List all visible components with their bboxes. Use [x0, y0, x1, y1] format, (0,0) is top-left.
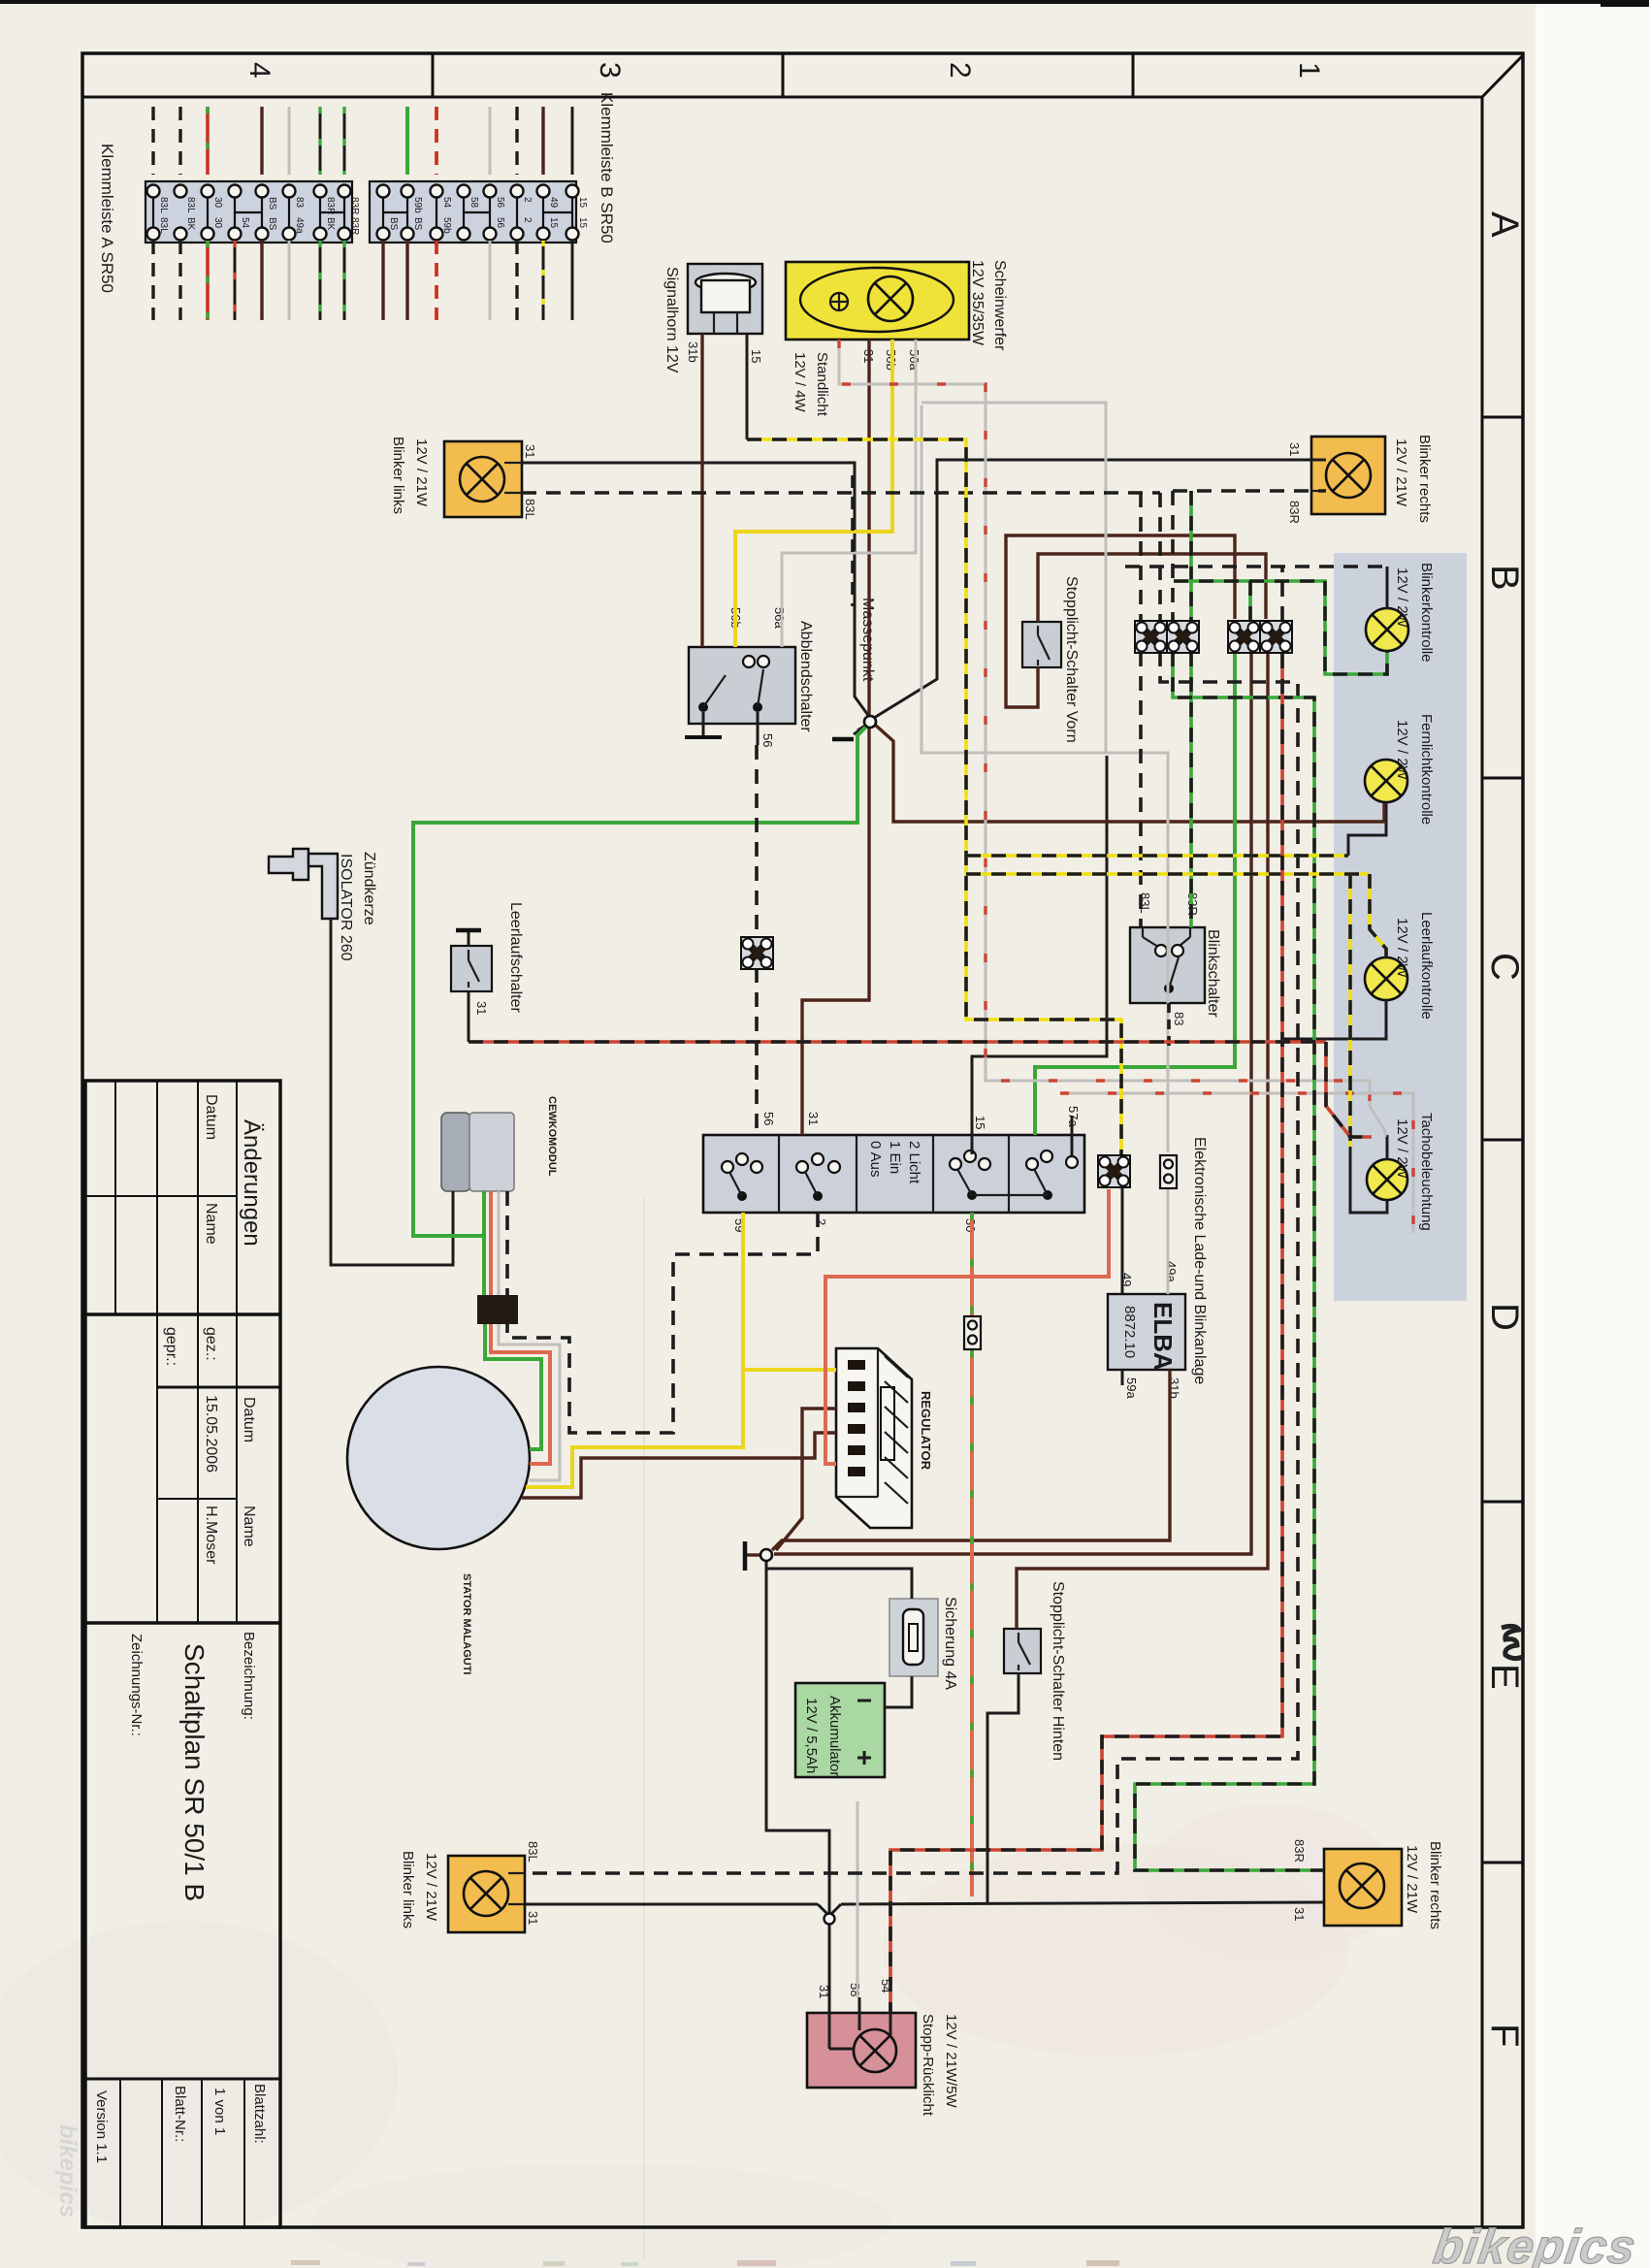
- wire stub strip A top BS: [260, 107, 263, 175]
- svg-text:59a: 59a: [1124, 1377, 1139, 1399]
- wire 30 switch to fuse area: [970, 1213, 974, 1315]
- svg-text:Stopp-Rücklicht: Stopp-Rücklicht: [920, 2014, 936, 2117]
- svg-text:83L: 83L: [158, 217, 169, 234]
- switch Blinkschalter: [1130, 927, 1205, 1003]
- wire 56 dashed Abblendschalter to switch: [755, 745, 759, 937]
- wire Stopplicht vorn to connector 4: [1038, 554, 1266, 622]
- svg-text:Tachobeleuchtung: Tachobeleuchtung: [1418, 1113, 1435, 1231]
- svg-text:Abblendschalter: Abblendschalter: [797, 621, 814, 732]
- Leerlaufschalter top bar: [468, 931, 470, 946]
- svg-text:CEWKOMODUL: CEWKOMODUL: [546, 1096, 558, 1177]
- Abblendschalter ground: [702, 712, 705, 735]
- wire 83R verticals to connector2: [1171, 491, 1175, 621]
- svg-text:Datum: Datum: [241, 1397, 257, 1442]
- turn signal Blinker rechts front 12V/21W: [1311, 437, 1385, 514]
- svg-text:E: E: [1483, 1664, 1526, 1690]
- svg-text:54: 54: [441, 197, 452, 209]
- svg-text:Blinker rechts: Blinker rechts: [1416, 435, 1433, 523]
- svg-text:Schaltplan SR 50/1 B: Schaltplan SR 50/1 B: [179, 1643, 210, 1901]
- svg-text:gez.:: gez.:: [203, 1327, 219, 1361]
- wire stub strip B top 54: [435, 107, 438, 175]
- svg-text:30: 30: [212, 197, 223, 209]
- svg-text:Name: Name: [241, 1506, 257, 1547]
- svg-text:Klemmleiste B SR50: Klemmleiste B SR50: [598, 92, 616, 243]
- wire stub strip A top 83L: [151, 107, 154, 175]
- svg-text:12V / 2W: 12V / 2W: [1394, 567, 1410, 629]
- connector block ELBA 49: [1098, 1155, 1130, 1187]
- wire stub strip A top 83R: [319, 107, 322, 175]
- svg-text:REGULATOR: REGULATOR: [919, 1391, 933, 1471]
- wire white distribution loop: [921, 403, 1106, 753]
- svg-text:57a: 57a: [1066, 1106, 1081, 1127]
- svg-text:31: 31: [523, 444, 537, 458]
- wire 83R front dashed to Blinker rechts: [1173, 489, 1326, 493]
- svg-text:83R: 83R: [349, 217, 360, 235]
- wire Massepunkt to Fernlichtkontrolle (ground return): [875, 725, 1384, 822]
- terminal strip Klemmleiste B SR50: [370, 181, 576, 243]
- svg-text:F: F: [1483, 2024, 1526, 2047]
- svg-text:15: 15: [548, 217, 559, 229]
- zone divider right y=1548: [1482, 1501, 1523, 1504]
- svg-text:Standlicht: Standlicht: [814, 352, 830, 417]
- svg-text:Bezeichnung:: Bezeichnung:: [241, 1632, 257, 1720]
- wire ELBA 59a stub: [1121, 1370, 1124, 1385]
- switch Abblendschalter: [689, 647, 795, 724]
- switch Stopplicht-Schalter Hinten: [1004, 1629, 1041, 1673]
- wire white 49a to ELBA: [1167, 1189, 1170, 1294]
- wire stub strip B bottom 15: [542, 241, 545, 320]
- svg-text:49: 49: [548, 197, 559, 209]
- horn Signalhorn 12V: [688, 264, 762, 334]
- indicator lamp Fernlichtkontrolle 12V/2W: [1365, 760, 1407, 802]
- wire ELBA 31b to ground junction: [772, 1370, 1170, 1550]
- tail light Stopp-Rücklicht 12V/21W/5W: [807, 2013, 916, 2088]
- stator STATOR MALAGUTI: [347, 1367, 530, 1549]
- wire regulator brown 1: [776, 1409, 836, 1550]
- wire stub strip A bottom 54: [234, 241, 237, 320]
- ink mark near zone E: [1502, 1626, 1523, 1658]
- svg-text:49a: 49a: [1164, 1261, 1179, 1282]
- svg-text:8872.10: 8872.10: [1121, 1306, 1138, 1358]
- frame inner top line: [82, 96, 1482, 99]
- wire 31 front left (Blinker links to Massepunkt): [522, 463, 870, 718]
- wire regulator brown 2 to stator: [522, 1433, 836, 1498]
- wire spark plug to CEWKOMODUL: [331, 919, 453, 1265]
- wire green connector3 to switch: [1035, 654, 1235, 1135]
- svg-text:58: 58: [848, 1983, 862, 1996]
- wire Blinkerkontrolle top stub: [1386, 567, 1389, 609]
- inline connector 30 wire: [964, 1316, 981, 1349]
- wire stub strip A bottom 83R: [343, 241, 346, 320]
- svg-text:83R: 83R: [349, 197, 360, 214]
- svg-text:83: 83: [294, 197, 305, 209]
- svg-text:15: 15: [577, 217, 588, 229]
- svg-text:Leerlaufkontrolle: Leerlaufkontrolle: [1418, 912, 1435, 1020]
- turn signal Blinker rechts rear 12V/21W: [1324, 1849, 1402, 1926]
- wire 56b headlight to Abblendschalter: [735, 340, 892, 647]
- svg-text:56: 56: [495, 217, 505, 229]
- svg-text:Stopplicht-Schalter Hinten: Stopplicht-Schalter Hinten: [1050, 1581, 1066, 1761]
- svg-text:Blinkschalter: Blinkschalter: [1205, 929, 1221, 1018]
- svg-text:ELBA: ELBA: [1148, 1302, 1178, 1371]
- wire Tachobeleuchtung bottom loop: [1350, 1147, 1387, 1213]
- svg-text:Fernlichtkontrolle: Fernlichtkontrolle: [1418, 714, 1435, 825]
- svg-text:BS: BS: [388, 217, 399, 231]
- svg-text:Blattzahl:: Blattzahl:: [251, 2084, 268, 2144]
- svg-text:Zündkerze: Zündkerze: [361, 852, 377, 925]
- svg-text:Sicherung 4A: Sicherung 4A: [942, 1597, 958, 1690]
- svg-text:15: 15: [749, 349, 763, 363]
- svg-text:BS: BS: [267, 197, 277, 211]
- wire 54 black-red connector4 down and to tail light: [890, 654, 1282, 2013]
- junction Massepunkt circle: [864, 716, 876, 728]
- wire 83L connector1 to Blinkschalter: [1139, 652, 1143, 927]
- wire 83L connector1 right to rear run: [525, 652, 1298, 1873]
- wire connector3 maroon down to ground junction: [774, 654, 1251, 1554]
- wire Fernlichtkontrolle bottom link: [1348, 802, 1386, 856]
- svg-text:Signalhorn 12V: Signalhorn 12V: [663, 267, 680, 373]
- ground symbol near battery: [743, 1541, 748, 1571]
- svg-text:31: 31: [526, 1911, 540, 1925]
- svg-text:12V / 2W: 12V / 2W: [1394, 1118, 1410, 1180]
- svg-text:12V / 21W: 12V / 21W: [413, 438, 430, 507]
- svg-text:12V / 2W: 12V / 2W: [1394, 720, 1410, 781]
- module CEWKOMODUL: [441, 1113, 470, 1191]
- svg-text:A: A: [1483, 211, 1526, 238]
- svg-text:12V / 4W: 12V / 4W: [792, 352, 808, 413]
- zone divider top x=807: [782, 53, 785, 97]
- wire connector4 brown down to Stopplicht hinten: [1017, 654, 1268, 1629]
- wire Stopplicht hinten bottom to 31 bus: [987, 1673, 1018, 1902]
- scanner edge top: [0, 0, 1600, 4]
- wire stub strip B top 59b: [405, 107, 409, 175]
- wire black-red to Tacho top: [1326, 1042, 1372, 1137]
- zone divider right y=802: [1482, 777, 1523, 780]
- wire stub strip A top 83L: [178, 107, 181, 175]
- indicator lamp Tachobeleuchtung 12V/2W: [1367, 1159, 1407, 1200]
- frame inner right line: [1481, 97, 1484, 2227]
- wire stub strip A bottom 49a: [288, 241, 291, 320]
- svg-text:Änderungen: Änderungen: [239, 1119, 265, 1247]
- svg-text:58: 58: [469, 197, 479, 209]
- svg-text:B: B: [1483, 565, 1526, 591]
- wire Blinkerkontrolle bottom loop green dashed: [1174, 581, 1387, 674]
- wire heavy dashed Abblendschalter region vertical: [851, 475, 855, 606]
- svg-text:2: 2: [944, 62, 976, 79]
- wire stub strip B top 15: [571, 107, 574, 175]
- zone divider right y=1175: [1482, 1139, 1523, 1142]
- svg-text:ISOLATOR 260: ISOLATOR 260: [338, 854, 354, 961]
- wire stub strip A top 83R: [343, 107, 346, 175]
- ground junction spoke: [747, 1553, 761, 1556]
- wire stub strip B top 2: [515, 107, 518, 175]
- wire stub strip B top 56: [489, 107, 492, 175]
- svg-text:83: 83: [1172, 1012, 1186, 1025]
- wire 31 headlight to Massepunkt: [867, 340, 870, 716]
- svg-text:4: 4: [243, 62, 275, 79]
- wire fuse top to ground junction: [766, 1569, 912, 1599]
- wire Blinkerkontrolle top dashed: [1125, 565, 1387, 568]
- wire stub strip B bottom 56: [489, 241, 492, 320]
- wire stub strip B bottom 59b: [435, 241, 438, 320]
- svg-text:1 Ein: 1 Ein: [887, 1141, 903, 1174]
- wire Massepunkt down to switch 31: [802, 728, 869, 1135]
- svg-text:1 von 1: 1 von 1: [211, 2088, 228, 2135]
- svg-text:Blinker links: Blinker links: [400, 1851, 416, 1928]
- wire 31 rear bus: [525, 1903, 818, 1906]
- svg-text:12V / 2W: 12V / 2W: [1394, 918, 1410, 979]
- instrument panel background: [1334, 553, 1467, 1301]
- switch Stopplicht-Schalter Vorn: [1022, 622, 1061, 667]
- wire connector3/4 top stubs: [1248, 581, 1252, 621]
- wire stub strip B bottom 15: [571, 241, 574, 320]
- svg-text:Scheinwerfer: Scheinwerfer: [991, 260, 1008, 351]
- svg-text:Stopplicht-Schalter Vorn: Stopplicht-Schalter Vorn: [1063, 576, 1080, 743]
- Abblendschalter 56 stub: [757, 712, 760, 745]
- zone divider top x=1168: [1132, 53, 1135, 97]
- wire battery minus run to rear: [766, 1560, 829, 1915]
- svg-text:BS: BS: [267, 217, 277, 231]
- svg-text:83L: 83L: [526, 1841, 540, 1863]
- svg-text:Klemmleiste A SR50: Klemmleiste A SR50: [98, 144, 116, 293]
- svg-text:Elektronische Lade-und Blinka: Elektronische Lade-und Blinkanlage: [1191, 1137, 1208, 1384]
- wire stub strip B bottom BS: [405, 241, 408, 320]
- svg-text:83R: 83R: [1292, 1839, 1307, 1863]
- connector block Abblendschalter 56: [741, 937, 773, 969]
- svg-text:BS: BS: [412, 217, 423, 231]
- wire white double from CEWKOMODUL to stator: [498, 1191, 501, 1295]
- svg-text:12V / 21W: 12V / 21W: [1393, 438, 1409, 507]
- ground junction Massepunkt: [864, 716, 876, 728]
- wire Leerlaufkontrolle bottom link: [1282, 1000, 1386, 1039]
- svg-text:Blinker links: Blinker links: [390, 437, 406, 514]
- wire stub strip B top 49: [541, 107, 544, 175]
- wire 83R connector2 to Blinkschalter: [1189, 652, 1193, 927]
- wire green stator to connector: [485, 1324, 541, 1449]
- switch Leerlaufschalter: [451, 946, 492, 991]
- svg-text:D: D: [1483, 1303, 1526, 1331]
- zone divider top x=446: [432, 53, 435, 97]
- svg-text:Zeichnungs-Nr.:: Zeichnungs-Nr.:: [128, 1634, 145, 1736]
- wire white 58 to tail light: [857, 1801, 859, 1997]
- svg-text:31: 31: [474, 1001, 489, 1015]
- wire stub strip A top 83: [288, 107, 291, 175]
- svg-text:31: 31: [1292, 1907, 1307, 1921]
- switch assembly handlebar: [703, 1135, 1084, 1213]
- wire 58 stub tail light: [858, 1997, 861, 2015]
- wire fuse bottom to battery plus: [885, 1676, 912, 1707]
- wire black-red Leerlaufschalter bus: [469, 1040, 1326, 1044]
- svg-text:83L: 83L: [523, 499, 537, 520]
- wire salmon connector to regulator: [825, 1189, 1109, 1464]
- svg-text:Akkumulator: Akkumulator: [826, 1696, 843, 1776]
- wire black-yellow to Tachobeleuchtung loop: [1348, 874, 1352, 1147]
- svg-text:15.05.2006: 15.05.2006: [203, 1395, 219, 1473]
- svg-text:49a: 49a: [294, 217, 305, 234]
- wire stub strip A bottom BK: [319, 241, 322, 320]
- svg-text:3: 3: [594, 62, 626, 79]
- svg-text:2: 2: [522, 217, 533, 223]
- svg-text:15: 15: [973, 1116, 987, 1129]
- connector block black: [477, 1295, 518, 1324]
- svg-text:12V / 21W: 12V / 21W: [423, 1853, 439, 1922]
- svg-text:83L: 83L: [158, 197, 169, 213]
- fuse Sicherung 4A: [889, 1599, 938, 1676]
- wire 56a headlight to Abblendschalter (white): [782, 340, 916, 647]
- svg-text:12V / 5,5Ah: 12V / 5,5Ah: [803, 1698, 820, 1773]
- connector block pair 2 (83R feeds): [1228, 621, 1260, 653]
- svg-text:56a: 56a: [772, 607, 787, 629]
- wire 2 dashed from switch to CEWKOMODUL: [507, 1213, 818, 1433]
- title block revision table lines: [114, 1081, 116, 1314]
- wire white-red standlicht 58: [839, 340, 1385, 1137]
- wire 83 Blinkschalter stub: [1167, 1003, 1171, 1050]
- wire white-red upper branch: [1060, 1093, 1413, 1233]
- wire stub strip B bottom BS: [381, 241, 384, 320]
- svg-text:83L: 83L: [185, 197, 196, 213]
- spark plug Zündkerze ISOLATOR 260: [269, 849, 308, 880]
- svg-text:STATOR MALAGUTI: STATOR MALAGUTI: [461, 1573, 472, 1675]
- wire 56b black-yellow branch to Leerlaufkontrolle: [966, 872, 1370, 876]
- wire 15 switch to distribution: [972, 756, 1107, 1154]
- wire 83R connector2 to rear blinker: [1135, 652, 1324, 1870]
- wire stub strip A bottom BK: [178, 241, 181, 320]
- svg-text:gepr.:: gepr.:: [163, 1327, 179, 1366]
- svg-text:C: C: [1483, 953, 1526, 981]
- svg-text:Version 1.1: Version 1.1: [93, 2090, 110, 2163]
- svg-text:0 Aus: 0 Aus: [867, 1141, 884, 1178]
- svg-text:bikepics: bikepics: [1430, 2219, 1639, 2268]
- wire stub strip A top 30: [206, 107, 210, 175]
- wire stub strip A bottom 30: [206, 241, 210, 320]
- svg-text:56: 56: [761, 1112, 776, 1125]
- wire 31 front right (Blinker rechts to Massepunkt): [874, 460, 1326, 718]
- wire green Massepunkt to CEWKOMODUL: [413, 727, 866, 1295]
- svg-text:Blinkerkontrolle: Blinkerkontrolle: [1418, 563, 1435, 663]
- svg-text:2 Licht: 2 Licht: [906, 1141, 922, 1184]
- wire Stopplicht vorn feed: [1006, 535, 1235, 707]
- wire ELBA 49: [1121, 1187, 1124, 1294]
- svg-text:Leerlaufschalter: Leerlaufschalter: [507, 902, 524, 1014]
- frame corner diagonal: [1482, 55, 1523, 97]
- svg-text:1: 1: [1293, 62, 1325, 79]
- turn signal Blinker links front 12V/21W: [444, 441, 522, 517]
- headlight Scheinwerfer 12V 35/35W: [786, 262, 969, 340]
- title block outline: [85, 1081, 280, 2227]
- battery Akkumulator 12V/5,5Ah: [795, 1683, 885, 1777]
- wire red from CEWKOMODUL to stator: [489, 1191, 493, 1295]
- svg-text:59b: 59b: [441, 217, 452, 234]
- svg-text:15: 15: [577, 197, 588, 209]
- svg-text:83R: 83R: [1287, 501, 1302, 524]
- wire 56a black-yellow branch to Fernlichtkontrolle: [966, 854, 1348, 858]
- svg-text:30: 30: [212, 217, 223, 229]
- svg-text:H.Moser: H.Moser: [203, 1506, 219, 1565]
- junction ground circle near regulator: [760, 1549, 772, 1561]
- turn signal Blinker links rear 12V/21W: [448, 1856, 525, 1932]
- inline connector white 49a: [1160, 1155, 1177, 1188]
- stains: [883, 1843, 1348, 2057]
- wire 59 switch to regulator and stator: [526, 1213, 743, 1487]
- wire 31b horn to Abblendschalter: [700, 334, 703, 647]
- wire horn 15: [746, 334, 749, 439]
- wire Tachobeleuchtung top stub: [1386, 1135, 1389, 1160]
- zone divider right y=430: [1482, 416, 1523, 419]
- svg-text:12V / 21W/5W: 12V / 21W/5W: [943, 2014, 959, 2109]
- wire 83L front dashed bus: [522, 491, 1160, 495]
- svg-text:Datum: Datum: [203, 1094, 219, 1140]
- module ELBA 8872.10: [1108, 1294, 1185, 1370]
- zone divider right y=1920: [1482, 1862, 1523, 1864]
- svg-text:31: 31: [1287, 442, 1302, 456]
- svg-text:BK: BK: [185, 217, 196, 231]
- svg-text:bikepics: bikepics: [54, 2124, 81, 2218]
- wire stub strip A bottom BS: [260, 241, 263, 320]
- svg-text:56: 56: [760, 733, 775, 747]
- wire 83L vertical to connector1: [1139, 493, 1143, 621]
- wire stub strip A bottom 83L: [151, 241, 154, 320]
- paper crease: [643, 1198, 645, 2260]
- rectifier REGULATOR: [836, 1348, 912, 1528]
- svg-text:12V / 21W: 12V / 21W: [1404, 1845, 1420, 1914]
- svg-text:BK: BK: [325, 217, 336, 231]
- svg-text:31b: 31b: [686, 341, 700, 363]
- wire stub strip B bottom 2: [515, 241, 518, 320]
- indicator lamp Blinkerkontrolle 12V/2W: [1366, 608, 1408, 651]
- bottom scan noise: [291, 2260, 1119, 2266]
- junction Y rear circle: [824, 1914, 835, 1925]
- svg-text:31: 31: [806, 1112, 821, 1125]
- connector block pair 1 (83L): [1135, 621, 1167, 653]
- svg-text:Blinker rechts: Blinker rechts: [1427, 1841, 1443, 1929]
- wire Leerlaufschalter bottom: [468, 991, 470, 1042]
- svg-text:12V 35/35W: 12V 35/35W: [969, 260, 986, 346]
- svg-text:Blatt-Nr.:: Blatt-Nr.:: [172, 2086, 188, 2142]
- svg-text:56: 56: [495, 197, 505, 209]
- svg-text:Name: Name: [203, 1203, 219, 1245]
- svg-text:59b: 59b: [412, 197, 423, 213]
- svg-text:2: 2: [522, 197, 533, 203]
- wire 56 black-yellow from horn15 down to ELBA connector: [747, 439, 1121, 1155]
- junction Y to tail light: [818, 1904, 827, 1914]
- wire green CEWKOMODUL upper stub: [482, 1191, 486, 1236]
- terminal strip Klemmleiste A SR50: [145, 181, 352, 243]
- indicator lamp Leerlaufkontrolle 12V/2W: [1365, 957, 1407, 1000]
- svg-text:54: 54: [240, 217, 250, 229]
